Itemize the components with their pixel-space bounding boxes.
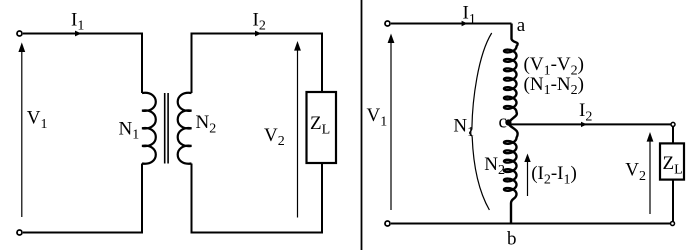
svg-text:N2: N2 — [484, 154, 505, 178]
svg-text:V1: V1 — [367, 105, 388, 129]
svg-text:I1: I1 — [71, 9, 84, 33]
svg-text:N1: N1 — [453, 116, 474, 140]
svg-text:a: a — [517, 15, 526, 36]
svg-text:c: c — [499, 111, 507, 132]
svg-text:I2: I2 — [253, 9, 266, 33]
svg-text:N2: N2 — [196, 112, 217, 136]
svg-text:V2: V2 — [625, 160, 646, 184]
svg-text:I2: I2 — [579, 100, 592, 124]
svg-text:b: b — [507, 229, 517, 250]
svg-text:V2: V2 — [264, 125, 285, 149]
svg-text:V1: V1 — [27, 108, 48, 132]
svg-text:(I2-I1): (I2-I1) — [531, 163, 577, 187]
svg-text:N1: N1 — [119, 118, 140, 142]
svg-text:I1: I1 — [463, 3, 476, 27]
